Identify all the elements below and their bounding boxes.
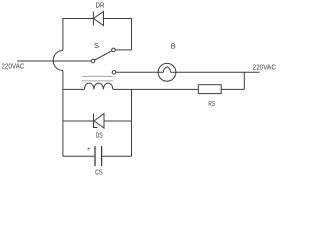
wire contact to lamp xyxy=(116,71,158,73)
wire coil row left xyxy=(63,88,85,90)
resistor RS xyxy=(198,85,221,94)
capacitor CS xyxy=(95,146,102,166)
core lines of inductor xyxy=(82,76,113,81)
node lower contact xyxy=(112,71,116,75)
wire hop arc on left vertical xyxy=(53,51,63,71)
switch S xyxy=(91,48,115,63)
svg-text:CS: CS xyxy=(95,169,103,176)
wire right vertical xyxy=(243,72,245,89)
inductor L coil xyxy=(84,83,113,89)
svg-text:DR: DR xyxy=(96,0,105,9)
wire 220VAC left feed xyxy=(17,60,91,62)
svg-text:RS: RS xyxy=(208,101,215,108)
wire lamp to right terminal xyxy=(176,71,260,73)
wire top loop left vertical xyxy=(63,19,93,51)
wire coil to RS xyxy=(113,88,198,90)
svg-text:220VAC: 220VAC xyxy=(1,62,24,71)
wire switch to top loop xyxy=(115,49,131,51)
wire top loop right xyxy=(104,19,132,51)
wire DS row left xyxy=(63,120,94,122)
wire bottom row right xyxy=(102,155,131,157)
lamp B xyxy=(158,63,176,81)
diode DR xyxy=(93,12,103,26)
diode DS xyxy=(94,114,105,129)
wire middle right vertical down xyxy=(131,89,133,156)
svg-text:B: B xyxy=(171,42,176,51)
wire DS row right xyxy=(104,120,132,122)
wire left vertical lower xyxy=(62,71,64,157)
svg-text:DS: DS xyxy=(96,133,103,140)
wire RS to right vertical xyxy=(221,88,244,90)
svg-text:220VAC: 220VAC xyxy=(253,63,277,72)
wire bottom row left xyxy=(63,155,95,157)
svg-text:S: S xyxy=(94,41,99,50)
svg-text:+: + xyxy=(87,146,91,153)
